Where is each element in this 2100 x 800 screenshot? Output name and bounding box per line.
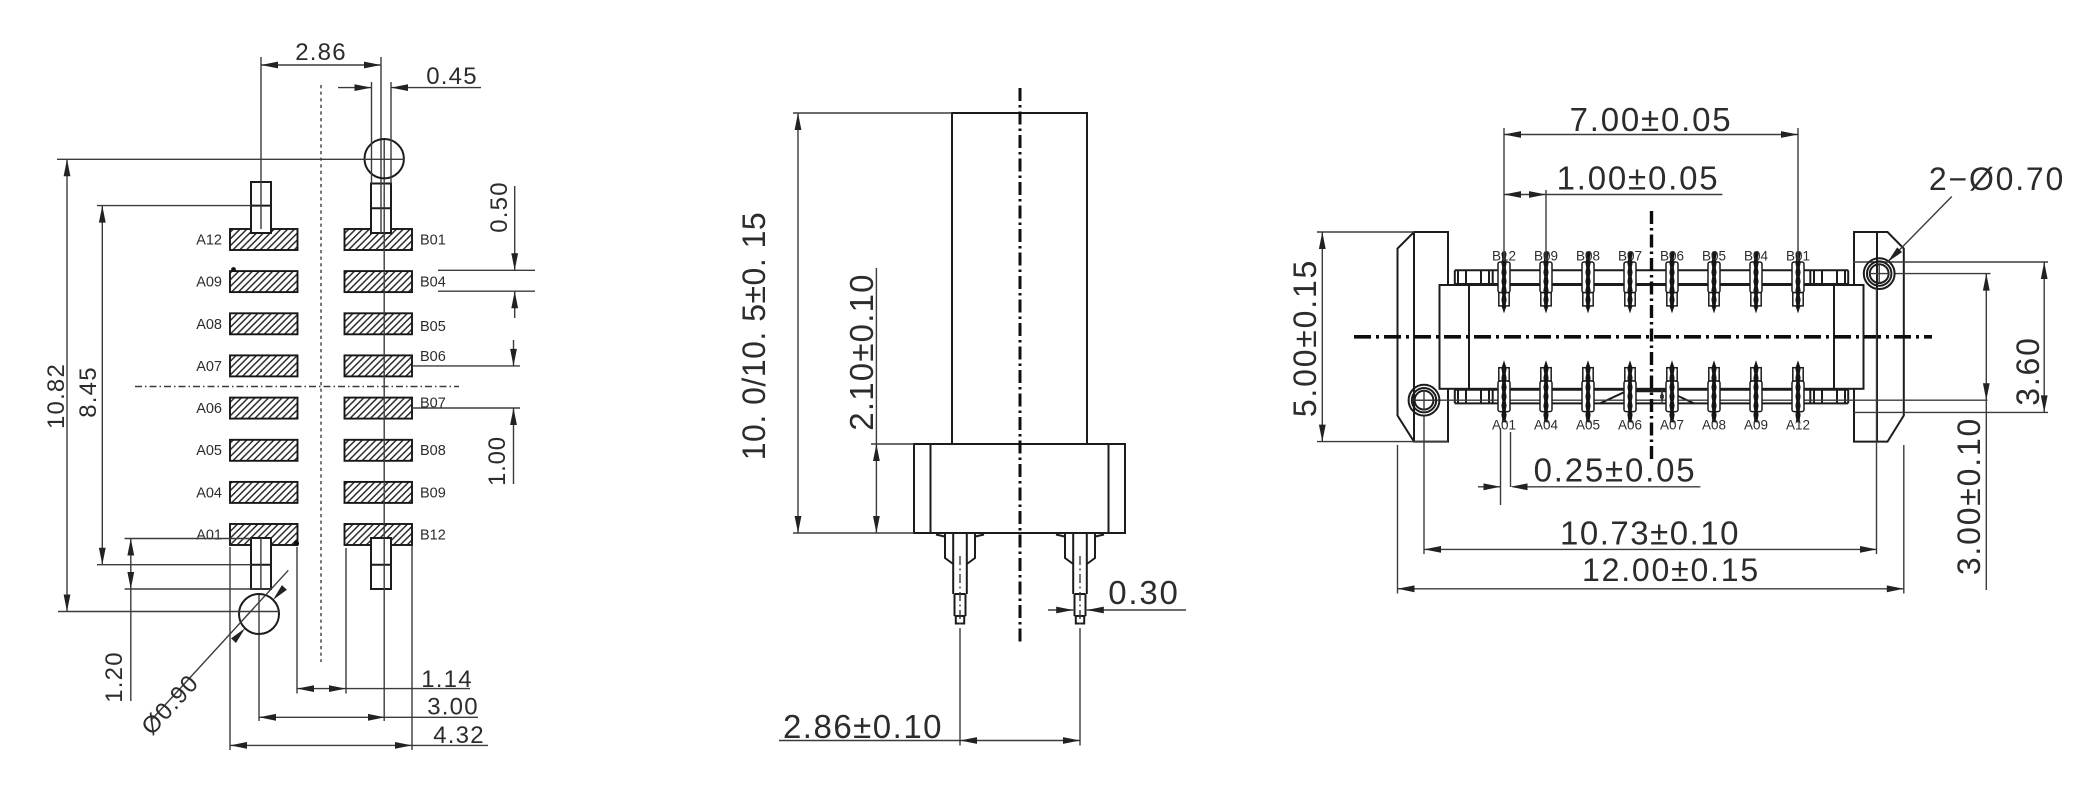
small vertical arrows at weld mark: [1660, 390, 1664, 399]
dim line 10.0/10.5: [797, 113, 799, 533]
pad A09: [230, 271, 298, 292]
extension 2.10 top: [871, 443, 914, 445]
press-fit pin B01: [1792, 252, 1804, 314]
arrow 12.00 right: [1887, 585, 1904, 592]
svg-text:3.00±0.10: 3.00±0.10: [1951, 417, 1987, 575]
arrow 0.25 right: [1511, 483, 1528, 490]
arrow 2.86 mid left: [960, 737, 977, 744]
extension line pin column B: [380, 57, 382, 233]
extension 3.60 bottom: [1854, 411, 2048, 413]
arrow 1.00 bottom: [510, 408, 517, 425]
press-fit pin A09: [1750, 360, 1762, 424]
arrow rv3.00 bottom: [1983, 383, 1990, 400]
extension 2.86 left pin: [959, 637, 961, 746]
leader 2-dia0.70: [1888, 197, 1952, 262]
extension 0.25 right: [1510, 432, 1512, 487]
extension 3.00 top (hole center): [1894, 273, 1991, 275]
svg-text:10.82: 10.82: [43, 363, 70, 429]
arrow rv1.00 right: [1529, 191, 1546, 198]
body inner line left: [1468, 285, 1470, 389]
extension 3.00 bottom (hole center): [1412, 399, 1988, 401]
arrow 0.25 left: [1484, 483, 1501, 490]
extension 1.00 bottom: [412, 407, 520, 409]
pad B09: [345, 482, 413, 503]
svg-text:B04: B04: [420, 275, 446, 291]
underline 0.25: [1513, 486, 1701, 488]
arrow 1.20 top: [127, 539, 134, 556]
extension 1.00 right view: [1545, 190, 1547, 261]
arrow 2.86 mid right: [1063, 737, 1080, 744]
dim line 1.20: [130, 539, 132, 702]
svg-text:7.00±0.05: 7.00±0.05: [1570, 101, 1733, 138]
arrow 10.82 bottom: [64, 595, 71, 612]
extension 10.0 bottom: [793, 532, 914, 534]
dim line 5.00: [1321, 232, 1323, 442]
right view vertical center line: [1650, 211, 1653, 460]
extension 4.32 right: [411, 546, 413, 751]
pin tail below pad B12: [371, 538, 391, 589]
extension 12.00 left: [1397, 445, 1399, 594]
connector base block: [914, 444, 1125, 533]
svg-text:B06: B06: [1660, 249, 1684, 264]
arrow 10.0 bottom: [795, 516, 802, 533]
left view horizontal center line: [135, 386, 459, 388]
arrow 4.32 left: [230, 742, 247, 749]
svg-text:B01: B01: [420, 233, 446, 249]
press-fit pin B09: [1540, 252, 1552, 314]
arrow 3.60 bottom: [2041, 395, 2048, 412]
extension 7.00 right: [1797, 128, 1799, 261]
dim line 4.32: [230, 744, 488, 746]
extension 1.14 right: [345, 548, 347, 694]
svg-text:10. 0/10. 5±0. 15: 10. 0/10. 5±0. 15: [736, 212, 772, 460]
arrow 10.73 right: [1860, 546, 1877, 553]
svg-text:1.00±0.05: 1.00±0.05: [1557, 160, 1720, 197]
pin tail below pad A01: [251, 538, 271, 589]
svg-text:2.86: 2.86: [295, 39, 347, 66]
dim line 0.25 arrow lead: [1478, 486, 1501, 488]
mounting flange left: [1398, 232, 1449, 442]
dim line 0.45 left: [338, 87, 372, 89]
connector upper body: [952, 113, 1087, 444]
arrow 2.10 top: [873, 444, 880, 461]
extension 1.14 left: [296, 547, 298, 694]
arrow 10.82 top: [64, 159, 71, 176]
pad B07: [345, 398, 413, 419]
flange right fold line: [1876, 232, 1878, 442]
pad A12: [230, 229, 298, 250]
svg-text:B05: B05: [1702, 249, 1726, 264]
svg-text:0.25±0.05: 0.25±0.05: [1534, 452, 1697, 489]
arrow 7.00 left: [1504, 131, 1521, 138]
arrow 0.50 top: [511, 253, 518, 270]
arrow 5.00 top: [1319, 232, 1326, 249]
svg-text:A08: A08: [196, 317, 222, 333]
svg-text:B05: B05: [420, 319, 446, 335]
svg-text:2.86±0.10: 2.86±0.10: [783, 708, 943, 745]
pin A step line: [251, 205, 271, 207]
dim line 3.00 right: [1985, 274, 1987, 590]
arrow 0.30 left: [1056, 607, 1073, 614]
dim line 0.30 left: [1048, 609, 1073, 611]
extension 5.00 bottom: [1317, 441, 1448, 443]
pad B04: [345, 271, 413, 292]
solder pin right: [1065, 533, 1095, 624]
dim line 7.00: [1504, 134, 1798, 136]
extension 1.20 bottom: [125, 588, 272, 590]
dim line 0.50 upper: [514, 186, 516, 270]
arrow 1.14 left: [297, 685, 314, 692]
svg-text:A04: A04: [1534, 418, 1559, 433]
extension 4.32 left: [229, 547, 231, 750]
extension 1.00 top: [412, 365, 520, 367]
leader line dia 0.90: [151, 570, 288, 720]
svg-text:8.45: 8.45: [75, 366, 102, 418]
pin right wedge marks: [1056, 535, 1104, 537]
solder pin left: [945, 533, 975, 624]
press-fit pin B07: [1624, 252, 1636, 314]
extension 10.73 left: [1423, 416, 1425, 554]
arrow 1.00 top: [510, 349, 517, 366]
dim line 0.50 lower: [514, 291, 516, 318]
dim line 10.82: [66, 159, 68, 611]
arrow 3.00 left: [259, 714, 276, 721]
extension 10.0 top: [793, 112, 952, 114]
svg-text:B08: B08: [1576, 249, 1600, 264]
svg-text:A12: A12: [1786, 418, 1810, 433]
svg-text:B06: B06: [420, 349, 446, 365]
svg-text:A06: A06: [1618, 418, 1642, 433]
dim line 10.73: [1424, 548, 1877, 550]
svg-text:A01: A01: [196, 528, 222, 544]
arrow 0.45 left: [355, 84, 372, 91]
svg-text:0.45: 0.45: [426, 63, 478, 90]
press-fit pin A01: [1498, 360, 1510, 424]
extension 10.82 top: [57, 158, 405, 160]
svg-text:10.73±0.10: 10.73±0.10: [1560, 515, 1740, 552]
extension 0.25 left: [1500, 428, 1502, 505]
press-fit pin B08: [1582, 252, 1594, 314]
svg-text:5.00±0.15: 5.00±0.15: [1287, 259, 1323, 417]
arrow 2-dia0.70: [1885, 247, 1902, 264]
svg-text:A09: A09: [196, 275, 222, 291]
arrow 1.20 bottom: [127, 572, 134, 589]
svg-text:A01: A01: [1492, 418, 1516, 433]
arrow 1.14 right: [329, 685, 346, 692]
extension line through B pads: [383, 140, 385, 721]
press-fit pin A06: [1624, 360, 1636, 424]
arrow 8.45 top: [99, 206, 106, 223]
svg-text:B08: B08: [420, 443, 446, 459]
hole circle bottom Xd0.90: [239, 594, 279, 634]
svg-text:B07: B07: [1618, 249, 1642, 264]
svg-text:B07: B07: [420, 396, 446, 412]
connector body: [1440, 285, 1864, 389]
arrow 0.50 bottom: [511, 291, 518, 308]
svg-text:0.50: 0.50: [486, 181, 513, 233]
svg-text:12.00±0.15: 12.00±0.15: [1582, 552, 1760, 588]
pad A04: [230, 482, 298, 503]
pad B08: [345, 440, 413, 461]
pad B05: [345, 313, 413, 334]
press-fit pin A12: [1792, 360, 1804, 424]
middle view vertical center line: [1019, 88, 1022, 643]
mounting hole top right: [1864, 258, 1895, 289]
base chamfer line left: [930, 444, 932, 533]
extension 5.00 top: [1317, 231, 1414, 233]
arrow rv3.00 top: [1983, 274, 1990, 291]
pad A07: [230, 355, 298, 376]
svg-text:A12: A12: [196, 233, 222, 249]
arrow 3.00 right: [368, 714, 385, 721]
extension line through bottom hole: [258, 594, 260, 721]
arrow 2.86 left: [261, 62, 278, 69]
pin left center line: [959, 556, 961, 637]
svg-text:2.10±0.10: 2.10±0.10: [843, 273, 880, 430]
svg-text:A09: A09: [1744, 418, 1768, 433]
dim line 12.00: [1398, 588, 1904, 590]
pad B06: [345, 355, 413, 376]
press-fit pin A04: [1540, 360, 1552, 424]
arrow dia0.90 upper: [270, 585, 286, 602]
right view horizontal center line: [1354, 335, 1932, 339]
arrow 10.73 left: [1424, 546, 1441, 553]
mounting flange right: [1854, 232, 1904, 442]
dim line 3.60: [2043, 262, 2045, 412]
hole circle top (B01 pin): [365, 139, 404, 178]
svg-text:A07: A07: [1660, 418, 1684, 433]
dim line 2.86 middle: [779, 740, 1080, 742]
svg-text:1.20: 1.20: [101, 651, 128, 703]
svg-text:B12: B12: [420, 528, 446, 544]
svg-text:A06: A06: [196, 401, 222, 417]
rail end collar dividers: [1454, 270, 1456, 284]
arrow 0.30 right: [1087, 607, 1104, 614]
pad A01: [230, 524, 298, 545]
vertex dot at pad A01 corner: [294, 541, 299, 546]
svg-text:A08: A08: [1702, 418, 1726, 433]
extension 0.45 right: [390, 82, 392, 184]
svg-text:3.60: 3.60: [2010, 336, 2046, 405]
extension 7.00 left: [1503, 128, 1505, 261]
pin left wedge marks: [936, 535, 984, 537]
arrow 5.00 bottom: [1319, 425, 1326, 442]
extension line pin column A: [260, 57, 262, 229]
arrow 2.86 right: [364, 62, 381, 69]
pad A06: [230, 398, 298, 419]
svg-text:0.30: 0.30: [1108, 574, 1179, 611]
press-fit pin A08: [1708, 360, 1720, 424]
arrow 12.00 left: [1398, 585, 1415, 592]
pad A05: [230, 440, 298, 461]
svg-text:A05: A05: [196, 443, 222, 459]
dim line 8.45: [101, 206, 103, 565]
press-fit pin A07: [1666, 360, 1678, 424]
dim line 3.00: [259, 716, 478, 718]
extension 10.73 right: [1876, 289, 1878, 555]
arrow 3.60 top: [2041, 262, 2048, 279]
body inner line right: [1833, 285, 1835, 389]
press-fit pin B06: [1666, 252, 1678, 314]
extension 0.50 bottom: [438, 290, 535, 292]
arrow 4.32 right: [395, 742, 412, 749]
pin tail above pad A12: [251, 182, 271, 233]
arrow 2.10 bottom: [873, 516, 880, 533]
pad B01: [345, 229, 413, 250]
svg-text:2−Ø0.70: 2−Ø0.70: [1929, 161, 2065, 197]
extension 10.82 bottom: [58, 611, 279, 613]
press-fit pin B04: [1750, 252, 1762, 314]
arrow 10.0 top: [795, 113, 802, 130]
dim line 2.10: [875, 268, 877, 533]
arrow 7.00 right: [1781, 131, 1798, 138]
left view vertical center line: [320, 85, 322, 662]
svg-text:A04: A04: [196, 485, 222, 501]
bottom pin A center line: [260, 538, 262, 589]
mounting hole bottom left: [1409, 385, 1440, 416]
svg-text:1.00: 1.00: [484, 436, 511, 486]
dim line 1.00 right view: [1504, 194, 1722, 196]
dim line 1.14: [297, 688, 470, 690]
pin right center line: [1079, 556, 1081, 637]
press-fit pin A05: [1582, 360, 1594, 424]
arrow rv1.00 left: [1504, 191, 1521, 198]
pad A08: [230, 313, 298, 334]
press-fit pin B12: [1498, 252, 1510, 314]
svg-text:A05: A05: [1576, 418, 1600, 433]
extension 8.45 top: [97, 205, 251, 207]
base chamfer line right: [1108, 444, 1110, 533]
flange left fold line: [1413, 232, 1415, 442]
rail ramp detail right: [1668, 391, 1694, 403]
extension 3.60 top: [1853, 261, 2048, 263]
extension 0.50 top: [438, 269, 535, 271]
press-fit pin B05: [1708, 252, 1720, 314]
svg-text:A07: A07: [196, 359, 222, 375]
extension 1.20 top: [125, 538, 251, 540]
extension 0.45 left: [371, 82, 373, 184]
dim line 1.00 upper: [513, 340, 515, 366]
dim line 2.86: [261, 64, 381, 66]
pin B bottom step line: [371, 564, 391, 566]
dim line 0.30 right: [1087, 609, 1186, 611]
pin B step line: [371, 207, 391, 209]
top contact rail: [1455, 269, 1848, 271]
svg-text:3.00: 3.00: [427, 694, 479, 721]
pin tail above pad B01: [371, 184, 391, 234]
pin A bottom step line: [251, 564, 271, 566]
dim line 1.00 lower: [513, 408, 515, 484]
rail ramp detail left: [1600, 391, 1626, 403]
arrow 0.45 right: [391, 84, 408, 91]
svg-text:B04: B04: [1744, 249, 1769, 264]
vertex dot at pad A09: [231, 267, 236, 272]
extension 2.86 right pin: [1079, 637, 1081, 746]
svg-text:B09: B09: [420, 485, 446, 501]
arrow 8.45 bottom: [99, 548, 106, 565]
pad B12: [345, 524, 413, 545]
dim line 0.45 right: [391, 87, 481, 89]
bottom contact rail: [1455, 389, 1848, 391]
rail ramp detail center: [1626, 390, 1668, 392]
extension 8.45 bottom: [97, 564, 251, 566]
extension 12.00 right: [1903, 445, 1905, 594]
arrow dia0.90 lower: [231, 626, 247, 643]
